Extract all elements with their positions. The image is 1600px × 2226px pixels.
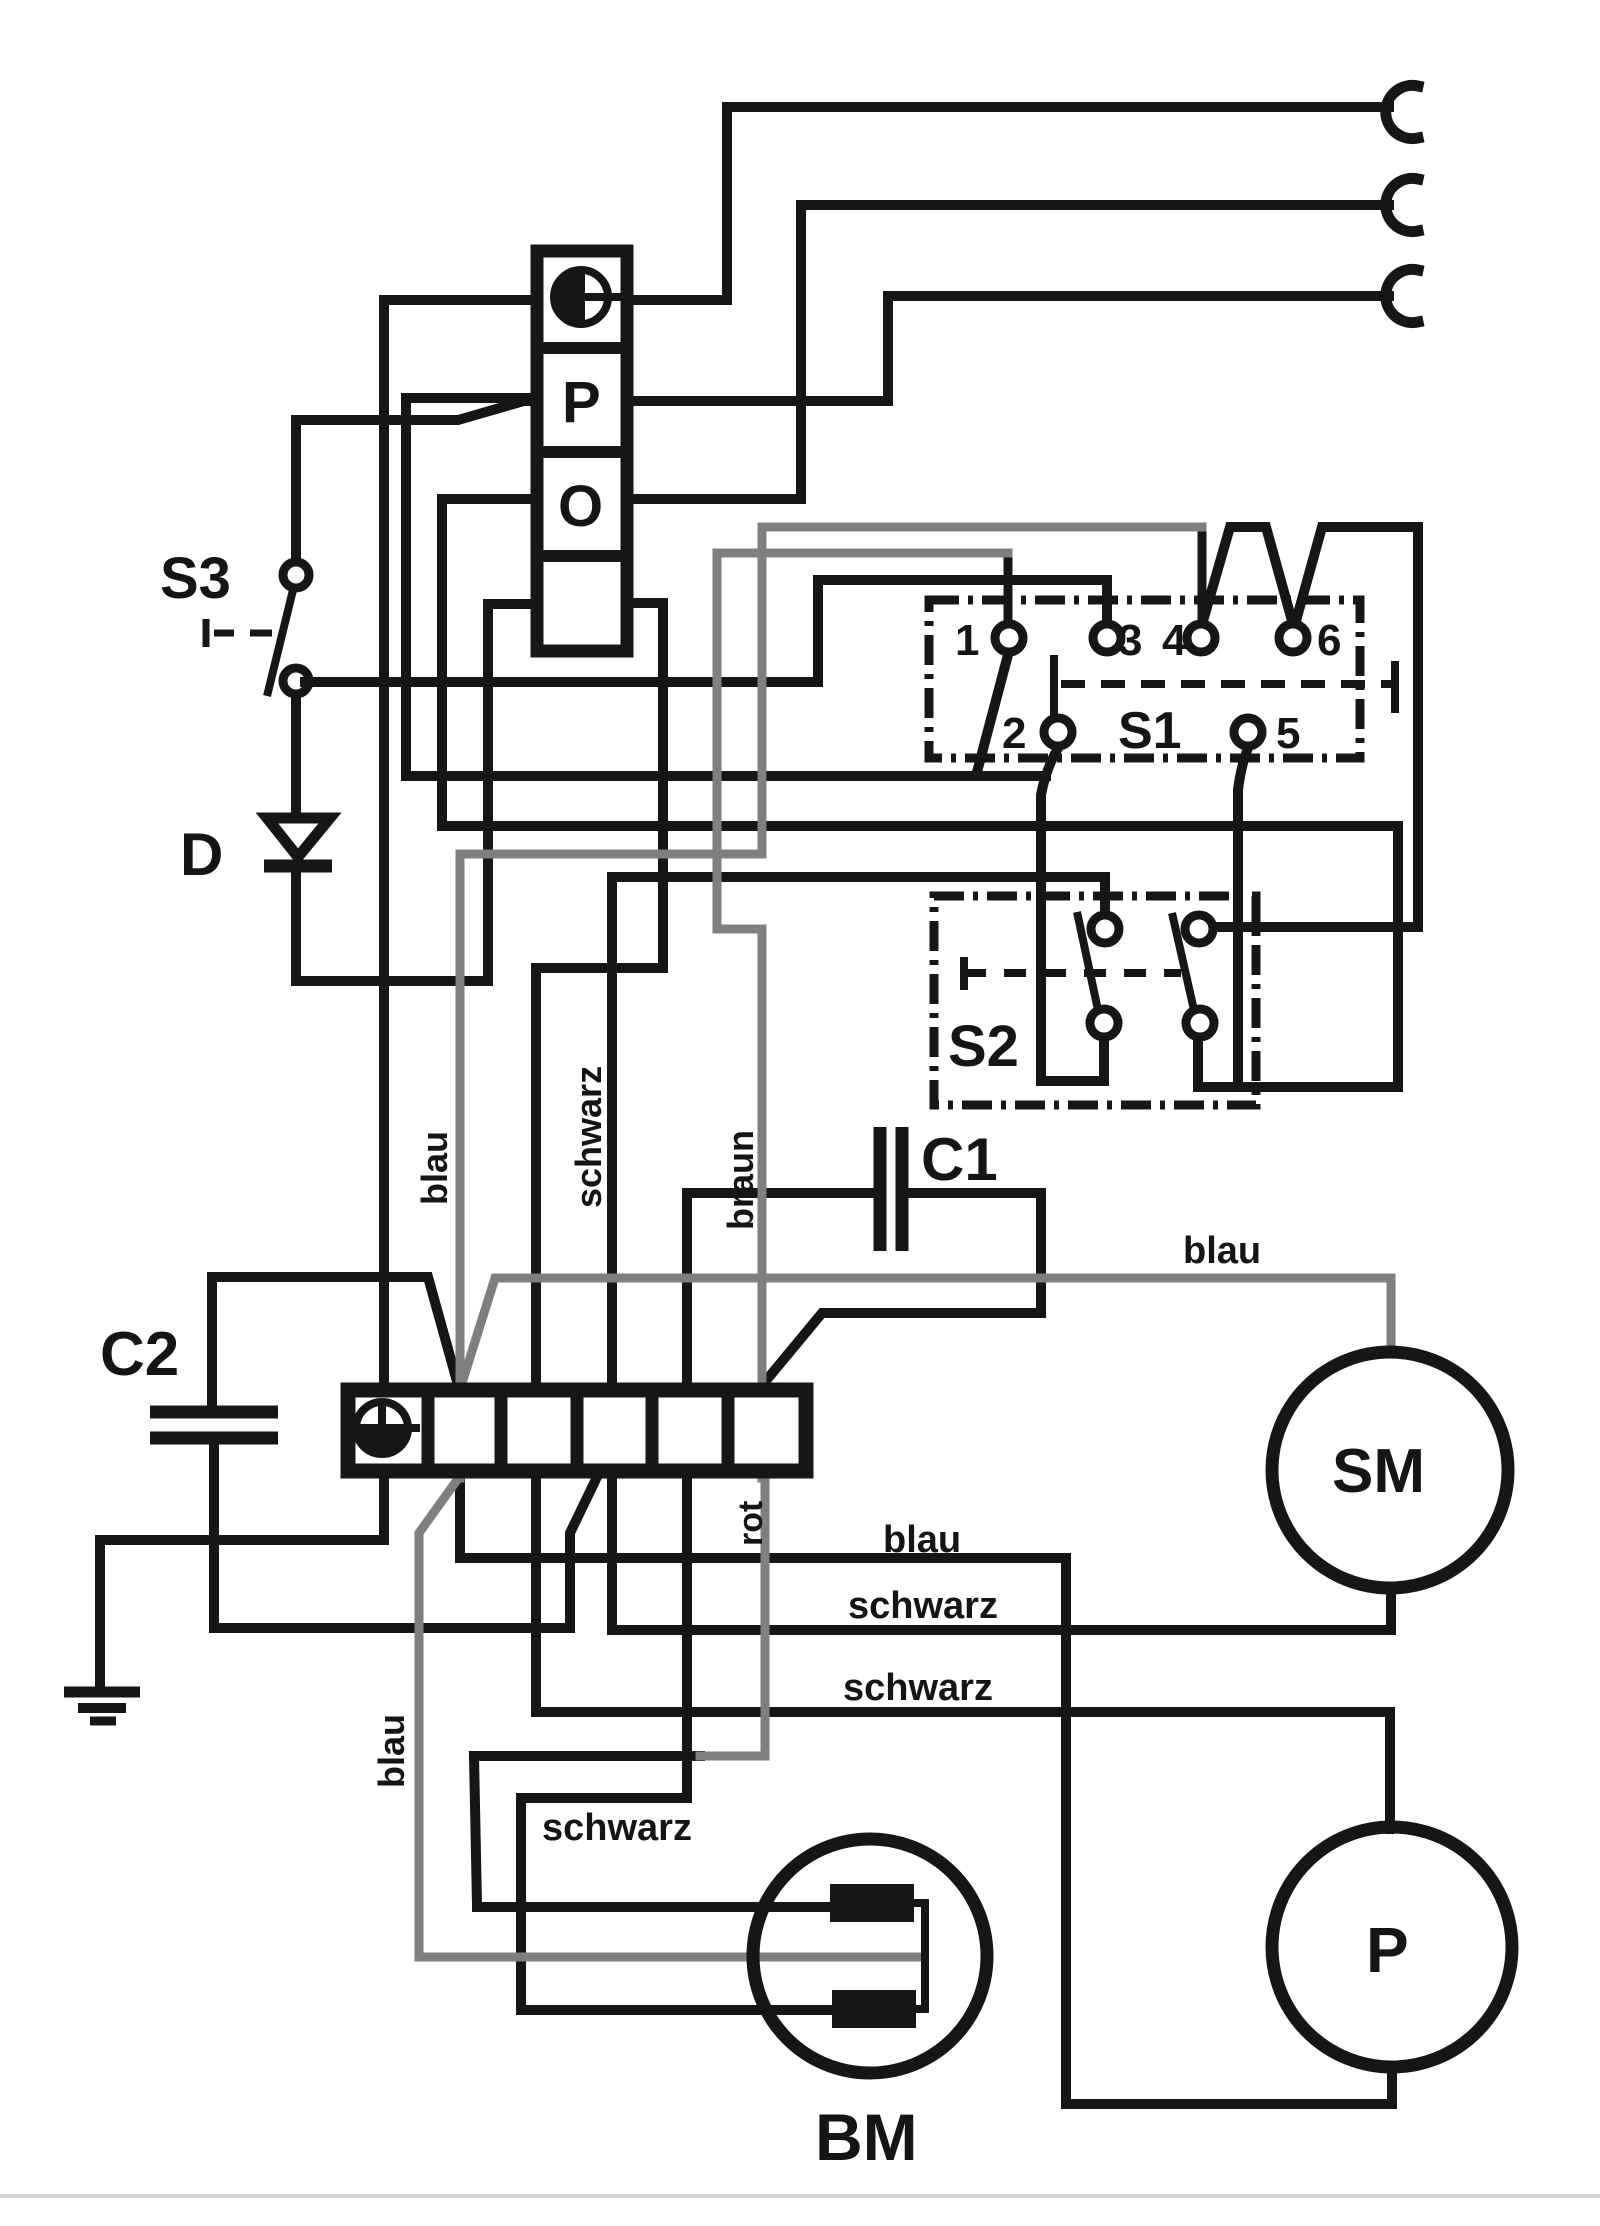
svg-text:schwarz: schwarz (542, 1807, 692, 1849)
BM top brush (830, 1884, 914, 1922)
hook connector 2 (1386, 178, 1418, 231)
svg-text:schwarz: schwarz (843, 1667, 993, 1709)
earth screw symbol in terminal strip (356, 1402, 420, 1454)
capacitor C2 plates (150, 1412, 278, 1438)
svg-text:5: 5 (1276, 709, 1300, 758)
PO terminal block outline (531, 251, 632, 651)
svg-text:6: 6 (1317, 616, 1341, 665)
svg-text:O: O (558, 474, 603, 539)
svg-text:P: P (1366, 1914, 1409, 1986)
svg-text:1: 1 (955, 616, 979, 665)
wire S2 left-top contact to schwarz vertical and SM bottom (612, 877, 1391, 1630)
wire S1 contact 2 to S2 left-bottom contact (1041, 748, 1104, 1081)
svg-text:2: 2 (1002, 709, 1026, 758)
wire S3 to P terminal (diagonal) (296, 401, 533, 561)
motor BM circle (753, 1839, 987, 2073)
svg-text:schwarz: schwarz (568, 1066, 609, 1208)
wire rot terminal strip cell6 down to BM top-brush line (700, 1478, 765, 1756)
svg-text:blau: blau (371, 1714, 412, 1788)
S3 actuator dashes (206, 619, 272, 647)
svg-text:D: D (180, 821, 223, 888)
S2 right-top contact (1185, 915, 1213, 943)
hook connector 1 (1386, 85, 1418, 138)
svg-text:C1: C1 (921, 1126, 998, 1193)
svg-text:C2: C2 (100, 1320, 179, 1389)
svg-text:blau: blau (414, 1131, 455, 1205)
svg-text:P: P (562, 370, 601, 435)
heating element filament above S1 contacts 4 and 6 and loop to S2 right-top (1201, 527, 1418, 927)
wire terminal strip cell2 to blau line and P motor bottom (460, 1478, 1392, 2104)
S1 actuator dashed line (1054, 655, 1395, 722)
wire rot line to BM top brush (474, 1751, 700, 1761)
BM bottom brush (832, 1990, 916, 2028)
wire S3 bottom contact to diode anode (291, 695, 301, 817)
svg-text:blau: blau (1183, 1230, 1261, 1272)
wire top-3 from P terminal to mains hook 3 (888, 296, 1389, 401)
wire S3 bottom contact to S1 contact 3 (305, 580, 1107, 682)
svg-text:braun: braun (720, 1130, 761, 1230)
switch S3 (267, 562, 309, 696)
wire top-2 from O terminal to mains hook 2 (801, 205, 1389, 499)
S1 contact 2 (1044, 718, 1072, 746)
wire S1 contact1 switch arm (977, 651, 1009, 772)
S1 contact 6 (1279, 624, 1307, 652)
wire screw-terminal right to vertical of hook1 (632, 295, 727, 305)
S2 left-top contact (1091, 915, 1119, 943)
wire O terminal left down to S1/S2 loop (442, 499, 1398, 1087)
wire PO-block bottom cell right down via schwarz path to terminal strip cell3 and P motor (536, 603, 1390, 1829)
wire top-1 from screw terminal to mains hook 1 (727, 107, 1389, 300)
S2 actuator dashed line (964, 957, 1181, 990)
wire C2 bottom plate to terminal strip cell4 (schwarz) (214, 1443, 597, 1628)
wire PO-block bottom cell left down to diode cathode (296, 604, 531, 981)
wire P terminal left with vertical down to S1 contact 1 arm line (406, 398, 1046, 776)
pump P circle (1272, 1827, 1512, 2067)
motor SM circle (1272, 1352, 1508, 1588)
svg-text:S2: S2 (948, 1014, 1019, 1079)
wire blau terminal strip cell2 to BM middle (419, 1480, 920, 1957)
S2 right pole arm (1172, 913, 1194, 1010)
svg-text:SM: SM (1332, 1437, 1425, 1506)
BM brush bracket (914, 1903, 925, 2009)
relay box S1 (dash-dot) (929, 600, 1360, 758)
wire stem into S1 contact 1 (1004, 553, 1013, 624)
hook connector 3 (1386, 269, 1418, 322)
relay box S2 (dash-dot) (934, 896, 1256, 1105)
terminal strip block (348, 1383, 806, 1478)
S2 left-bottom contact (1090, 1009, 1118, 1037)
earth screw symbol in PO block (554, 268, 622, 326)
wire blau terminal strip cell2 to SM top (462, 1278, 1391, 1383)
wire C1 left plate down to terminal strip cell5 and BM bottom brush (521, 1193, 874, 2010)
wire C2 top plate to terminal strip cell2 junction (212, 1277, 458, 1406)
diode D (264, 818, 332, 866)
ground symbol (64, 1692, 140, 1721)
S1 contact 5 (1234, 718, 1262, 746)
page bottom scan edge (0, 2194, 1600, 2198)
S1 contact 3 (1093, 624, 1121, 652)
wire blau from S1 contact 4 down-left to terminal strip cell2 (460, 527, 1202, 1478)
capacitor C1 plates (880, 1127, 902, 1251)
svg-text:BM: BM (815, 2100, 918, 2174)
S2 right-bottom contact (1186, 1009, 1214, 1037)
S2 left pole arm (1077, 912, 1098, 1010)
wire braun from S1 contact 1 down to terminal strip cell6 (717, 553, 1008, 1478)
svg-text:schwarz: schwarz (848, 1585, 998, 1627)
svg-text:S1: S1 (1118, 702, 1182, 760)
wire screw-terminal left and long vertical down to terminal strip and ground (100, 300, 531, 1692)
S1 contact 1 (995, 624, 1023, 652)
wire O terminal right (632, 494, 801, 504)
svg-text:blau: blau (883, 1519, 961, 1561)
svg-text:3: 3 (1118, 616, 1142, 665)
svg-text:S3: S3 (160, 546, 231, 611)
wire P terminal right (632, 396, 888, 406)
wire C1 right plate to terminal strip cell6 (764, 1193, 1041, 1383)
wire S1 contact 5 down to S2 right-bottom line (1238, 748, 1248, 1085)
svg-text:4: 4 (1162, 616, 1187, 665)
svg-text:rot: rot (732, 1501, 770, 1546)
wire stem into S1 contact 4 (1198, 527, 1207, 624)
S1 contact 4 (1187, 624, 1215, 652)
